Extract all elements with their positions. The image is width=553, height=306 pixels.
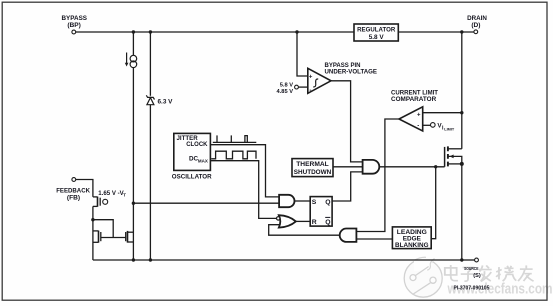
svg-text:Q: Q <box>325 219 330 226</box>
svg-text:S: S <box>312 199 317 206</box>
svg-text:5.8 V: 5.8 V <box>369 34 385 41</box>
svg-text:+: + <box>309 75 313 81</box>
svg-text:SHUTDOWN: SHUTDOWN <box>294 169 332 176</box>
svg-text:SOURCE: SOURCE <box>464 266 479 272</box>
svg-text:6.3 V: 6.3 V <box>158 99 174 106</box>
svg-text:OSCILLATOR: OSCILLATOR <box>172 173 212 180</box>
svg-text:4.85 V: 4.85 V <box>277 89 294 95</box>
svg-text:(FB): (FB) <box>67 194 80 201</box>
svg-text:THERMAL: THERMAL <box>296 161 329 168</box>
svg-text:UNDER-VOLTAGE: UNDER-VOLTAGE <box>325 69 378 76</box>
svg-text:5.8 V: 5.8 V <box>280 82 293 88</box>
svg-text:(D): (D) <box>471 22 480 29</box>
svg-text:LIMIT: LIMIT <box>444 128 455 132</box>
svg-text:R: R <box>312 219 317 226</box>
svg-text:COMPARATOR: COMPARATOR <box>391 96 437 103</box>
svg-text:-: - <box>309 88 311 94</box>
svg-text:Q: Q <box>325 199 330 206</box>
svg-text:T: T <box>123 193 126 198</box>
svg-text:(BP): (BP) <box>67 22 81 29</box>
svg-text:+: + <box>417 113 421 119</box>
svg-text:FEEDBACK: FEEDBACK <box>56 187 90 194</box>
svg-text:MAX: MAX <box>198 158 208 163</box>
svg-text:REGULATOR: REGULATOR <box>357 26 395 33</box>
svg-text:PI-3707-090105: PI-3707-090105 <box>454 286 490 292</box>
svg-text:CLOCK: CLOCK <box>186 141 208 148</box>
svg-text:(S): (S) <box>473 273 481 279</box>
svg-text:BLANKING: BLANKING <box>395 242 429 249</box>
svg-text:-: - <box>417 123 419 129</box>
svg-text:1.65 V -V: 1.65 V -V <box>98 190 124 197</box>
